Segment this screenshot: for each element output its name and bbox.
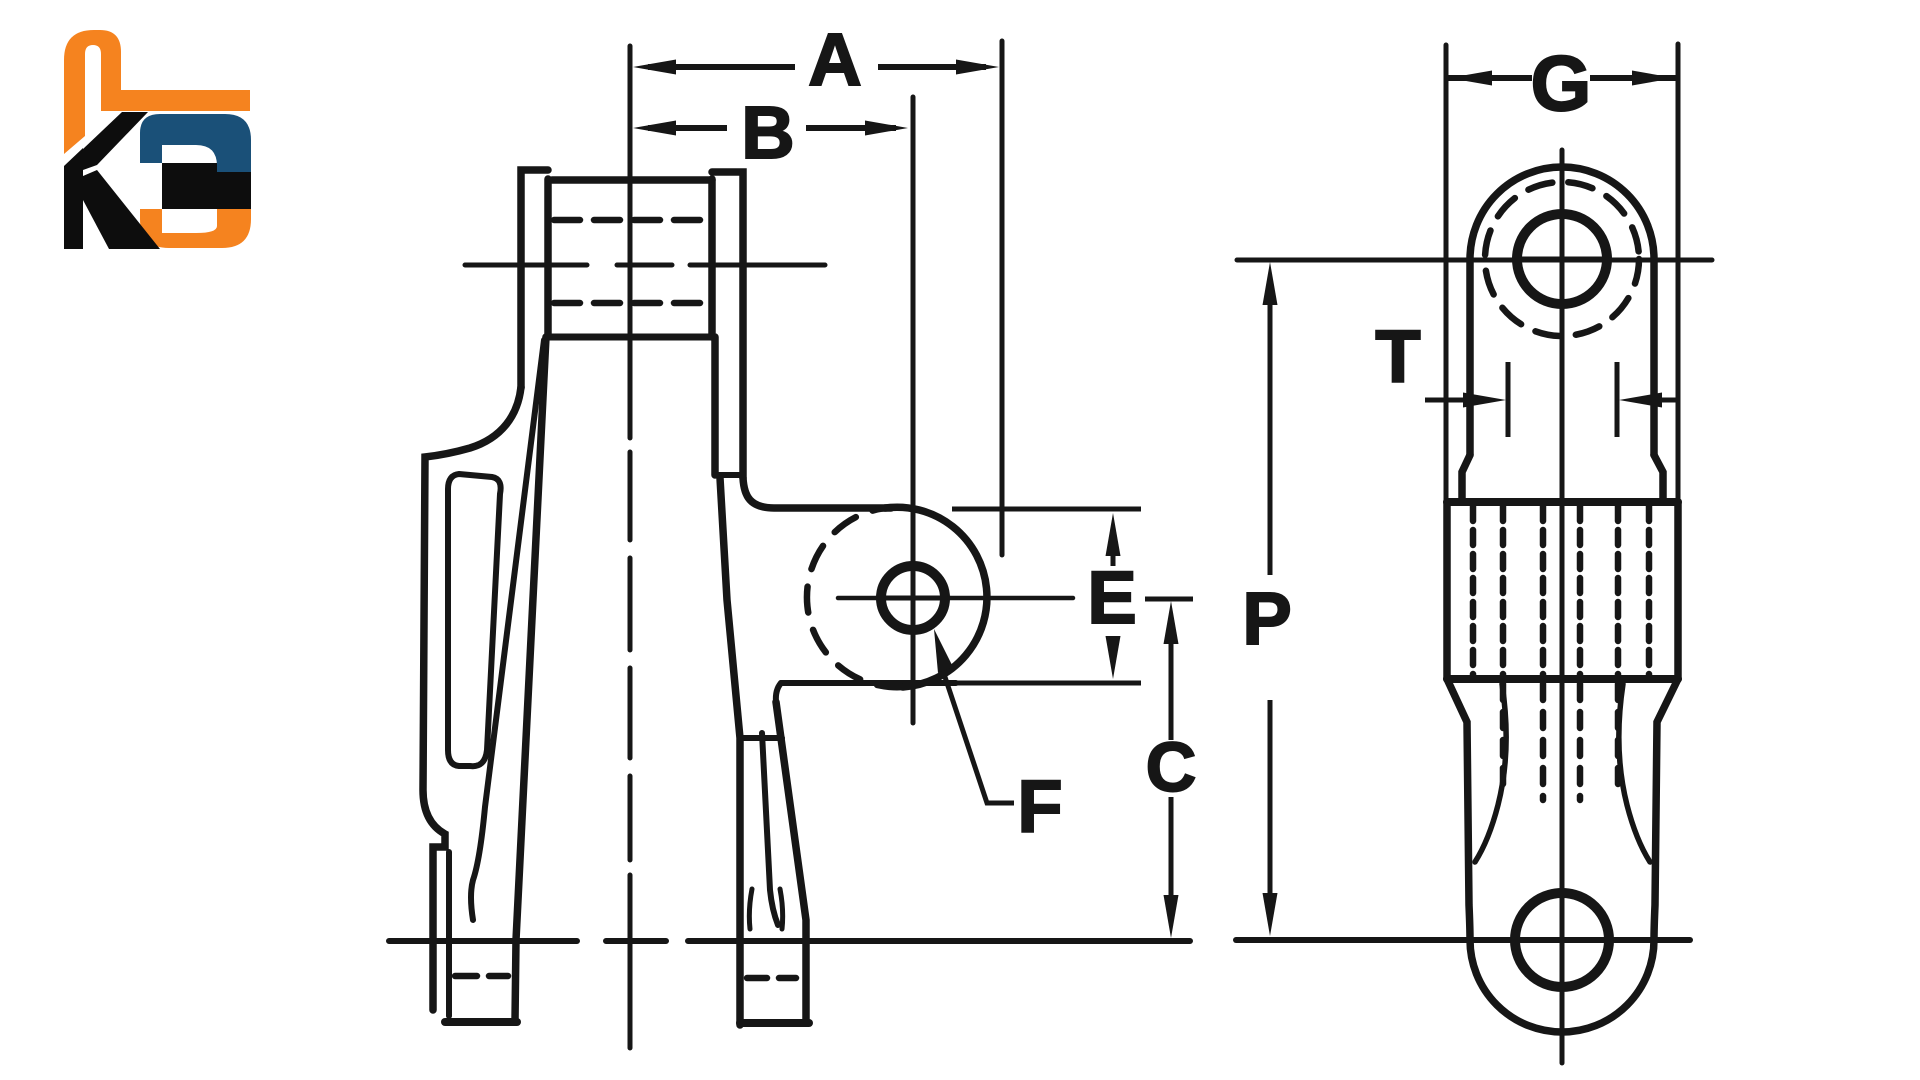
hole crosshair tick (877, 596, 949, 601)
logo black K arm (83, 112, 148, 170)
right foot inner hooks (749, 889, 752, 929)
left sidebar right-edge diagonal (515, 337, 546, 1021)
svg-text:B: B (741, 91, 794, 174)
right sidebar inner line (762, 733, 778, 925)
F leader (940, 662, 1014, 803)
dim P line (1268, 300, 1273, 900)
neck outline (1447, 679, 1678, 1032)
svg-text:C: C (1146, 728, 1197, 806)
left flange (521, 170, 548, 388)
barrel horizontal centerline (465, 263, 825, 268)
right sidebar right diagonal edge (776, 702, 806, 1022)
vertical centerline x=630 (628, 46, 633, 438)
baseline / bottom centerline (1236, 937, 1690, 943)
neck inner curves (1475, 684, 1506, 862)
barrel top edge (552, 176, 712, 184)
attachment boss solid arc (885, 507, 987, 687)
head pin hole (1517, 214, 1607, 304)
left foot dashed (455, 973, 508, 980)
eye pin hole (1515, 893, 1609, 987)
attachment pin hole (881, 566, 945, 630)
right foot dashed (747, 975, 796, 982)
logo black K leg (83, 170, 160, 249)
dim G line (1446, 75, 1678, 81)
logo orange n-stroke with bar (64, 30, 250, 154)
barrel dashed verticals (1470, 506, 1477, 676)
A ext line right (1000, 41, 1005, 555)
svg-text:G: G (1531, 39, 1592, 127)
logo black K stem (64, 148, 83, 249)
barrel hidden dashed lines (554, 217, 710, 224)
left sidebar outer contour (423, 387, 521, 1010)
barrel top line (1447, 498, 1678, 506)
vertical centerline (1560, 150, 1565, 1063)
svg-text:F: F (1017, 765, 1062, 848)
dim T ticks (1506, 362, 1511, 437)
svg-text:T: T (1375, 315, 1420, 398)
hole horizontal centerline (838, 596, 1073, 601)
left sidebar inner foot line (446, 852, 452, 1016)
logo S orange bottom (140, 207, 251, 248)
shelf left curve (776, 683, 781, 702)
dim B line (648, 125, 896, 131)
baseline (389, 938, 1190, 944)
right sidebar top tick of foot (740, 735, 782, 741)
G ext lines (1444, 45, 1449, 500)
head outer arc and sides (1470, 167, 1654, 455)
left foot bottom cap (445, 1018, 517, 1026)
head hole crosshair (1515, 257, 1609, 262)
vertical centerline x=913 (B ext / hole axis) (911, 97, 916, 723)
right sidebar shelf (781, 680, 956, 686)
right flange tick (715, 472, 743, 478)
dim E ext top (952, 507, 1141, 512)
barrel sides (1443, 502, 1451, 679)
dim E arrows (1106, 513, 1121, 556)
dim A line (648, 64, 986, 70)
neck dashed continuations (1500, 684, 1507, 790)
dim T line right (1660, 398, 1677, 403)
head side chamfers (1462, 455, 1470, 502)
logo S black middle (162, 163, 251, 209)
dim E ext bottom (956, 681, 1141, 686)
svg-text:E: E (1087, 556, 1136, 639)
horizontal centerline head (1237, 258, 1712, 263)
head dashed circle (1485, 182, 1639, 336)
attachment boss dashed arc (807, 508, 903, 687)
barrel bottom line (1447, 675, 1678, 683)
right sidebar left edge (720, 478, 740, 1025)
right flange (712, 172, 743, 478)
svg-text:A: A (808, 18, 861, 101)
barrel bottom edge (550, 334, 711, 341)
left sidebar inner diagonal with hook (471, 340, 544, 920)
right foot bottom cap (740, 1019, 809, 1027)
dim T line left (1425, 398, 1465, 403)
left sidebar inner slot (448, 474, 501, 766)
right sidebar outer, to attachment plate top (743, 478, 891, 508)
svg-text:P: P (1242, 577, 1291, 660)
dim C top tick (1145, 597, 1193, 602)
dim C line (1169, 640, 1174, 905)
eye hole crosshair (1513, 938, 1611, 943)
logo S blue top (140, 114, 251, 172)
